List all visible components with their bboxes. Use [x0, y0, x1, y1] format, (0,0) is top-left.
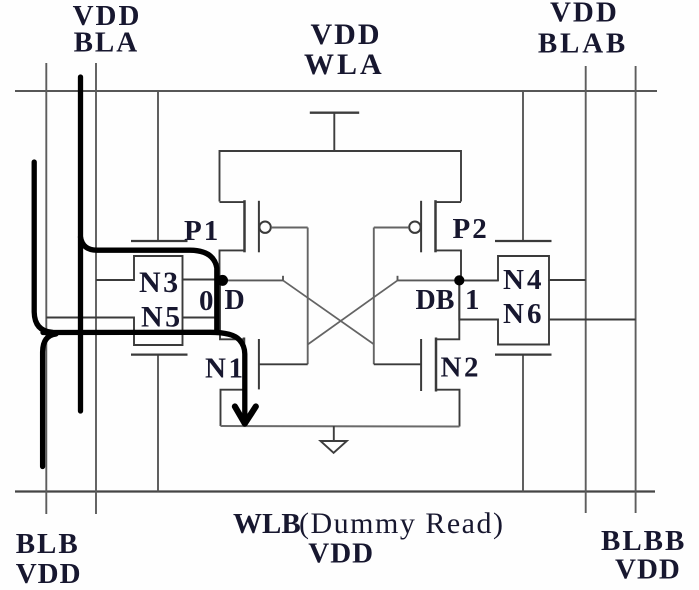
svg-text:N4: N4 — [503, 264, 544, 296]
svg-text:D: D — [225, 285, 245, 316]
transistor N5 (left access, source to BLB) — [46, 280, 220, 355]
svg-text:BLAB: BLAB — [538, 28, 628, 60]
svg-text:N1: N1 — [205, 353, 245, 385]
highlighted BLB line upper (thick stroke) — [34, 162, 52, 332]
arrowhead of read current into ground — [235, 407, 256, 424]
wire bitline BLB — [45, 63, 47, 514]
wire WLA rail — [15, 90, 657, 92]
node DB wire corner tick — [397, 276, 399, 281]
svg-text:N3: N3 — [139, 266, 181, 299]
svg-text:VDD: VDD — [308, 538, 374, 570]
highlighted BLB line lower hook — [43, 334, 56, 467]
svg-text:VDD: VDD — [615, 554, 681, 586]
transistor N6 (right access, drain to BLBB) — [459, 280, 635, 355]
node D wire — [221, 279, 283, 281]
wire WLA gate stem right — [522, 91, 524, 241]
transistor N4 (right access, drain to BLAB) — [459, 241, 585, 280]
wire gate net left (P1/N1 gates) — [307, 228, 309, 365]
node DB junction dot — [454, 275, 464, 285]
node DB wire — [398, 279, 499, 281]
svg-text:BLA: BLA — [74, 27, 140, 59]
node D wire corner tick — [282, 276, 284, 281]
svg-text:(Dummy Read): (Dummy Read) — [299, 507, 504, 540]
power VDD terminal — [310, 113, 359, 151]
svg-text:N6: N6 — [503, 298, 544, 330]
transistor N2 — [374, 281, 460, 427]
wire WLB gate stem left — [157, 355, 159, 492]
wire WLA gate stem left — [157, 91, 159, 241]
wire WLB rail — [15, 490, 655, 492]
transistor N1 — [220, 281, 308, 426]
svg-text:1: 1 — [465, 284, 480, 316]
highlighted BLA line (thick stroke) — [78, 77, 83, 411]
wire gate net right (P2/N2 gates) — [373, 228, 375, 365]
transistor N3 (left access, source to BLA) — [96, 241, 218, 280]
svg-text:WLB: WLB — [233, 508, 301, 540]
svg-text:VDD: VDD — [311, 18, 382, 51]
wire latch VDD rail — [220, 151, 462, 202]
svg-text:WLA: WLA — [304, 48, 385, 81]
wire cross-couple D to right gates — [283, 280, 374, 344]
wire cross-couple DB to left gates — [308, 280, 398, 344]
svg-text:0: 0 — [199, 285, 214, 317]
wire WLB gate stem right — [522, 355, 524, 492]
transistor P2 — [374, 200, 461, 279]
svg-text:DB: DB — [416, 285, 455, 316]
svg-text:BLBB: BLBB — [601, 525, 686, 557]
transistor P1 — [220, 200, 308, 281]
svg-text:N5: N5 — [141, 301, 183, 334]
ground — [321, 426, 347, 453]
wire bitline BLBB — [635, 66, 637, 513]
node D junction dot — [217, 275, 228, 286]
highlighted path through N5 to node D and down through N1 — [43, 332, 245, 419]
svg-text:VDD: VDD — [16, 558, 82, 590]
svg-text:BLB: BLB — [16, 528, 80, 560]
highlighted branch BLA through N3 to node D — [81, 237, 217, 331]
svg-text:N2: N2 — [441, 352, 481, 384]
wire latch ground rail — [221, 425, 460, 428]
svg-text:VDD: VDD — [550, 0, 619, 29]
svg-text:P1: P1 — [184, 215, 220, 247]
svg-text:P2: P2 — [453, 213, 489, 245]
wire bitline BLA — [95, 63, 97, 514]
wire bitline BLAB — [585, 66, 587, 513]
